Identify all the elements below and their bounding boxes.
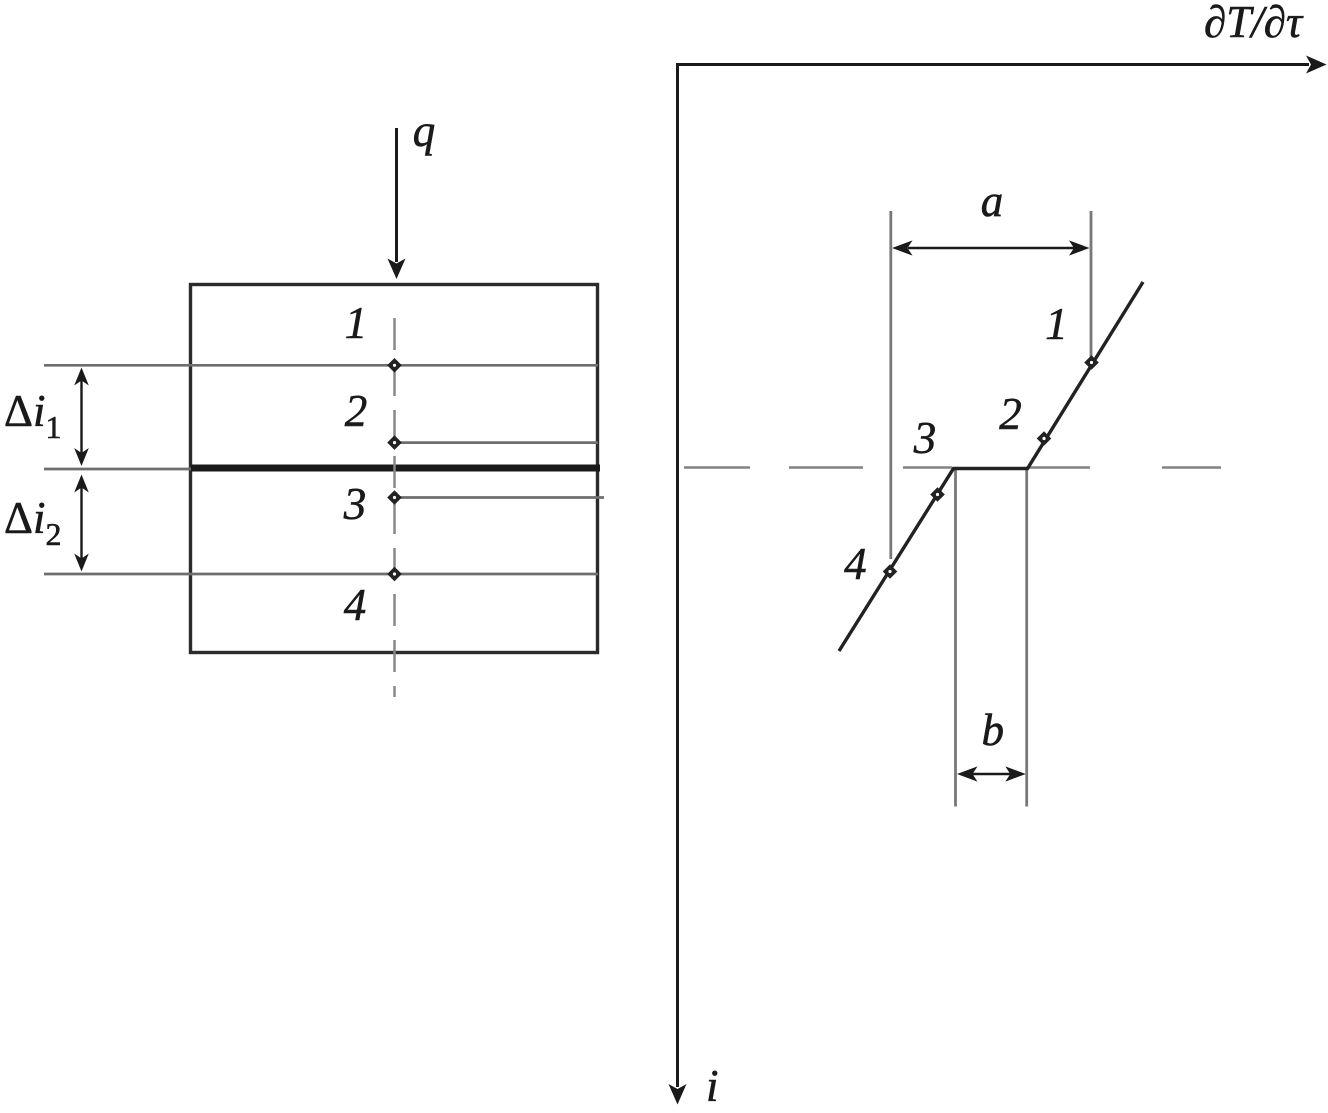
svg-text:3: 3 [343,479,367,529]
svg-text:2: 2 [345,386,368,436]
svg-text:1: 1 [345,298,368,348]
svg-text:4: 4 [344,580,367,630]
svg-text:q: q [413,106,436,156]
svg-text:1: 1 [1045,299,1068,349]
svg-text:∂T/∂τ: ∂T/∂τ [1204,0,1304,47]
svg-text:3: 3 [913,413,937,463]
svg-text:4: 4 [844,539,867,589]
svg-text:b: b [981,705,1004,755]
svg-text:2: 2 [999,389,1022,439]
svg-text:a: a [981,176,1004,226]
svg-text:i: i [706,1061,719,1111]
